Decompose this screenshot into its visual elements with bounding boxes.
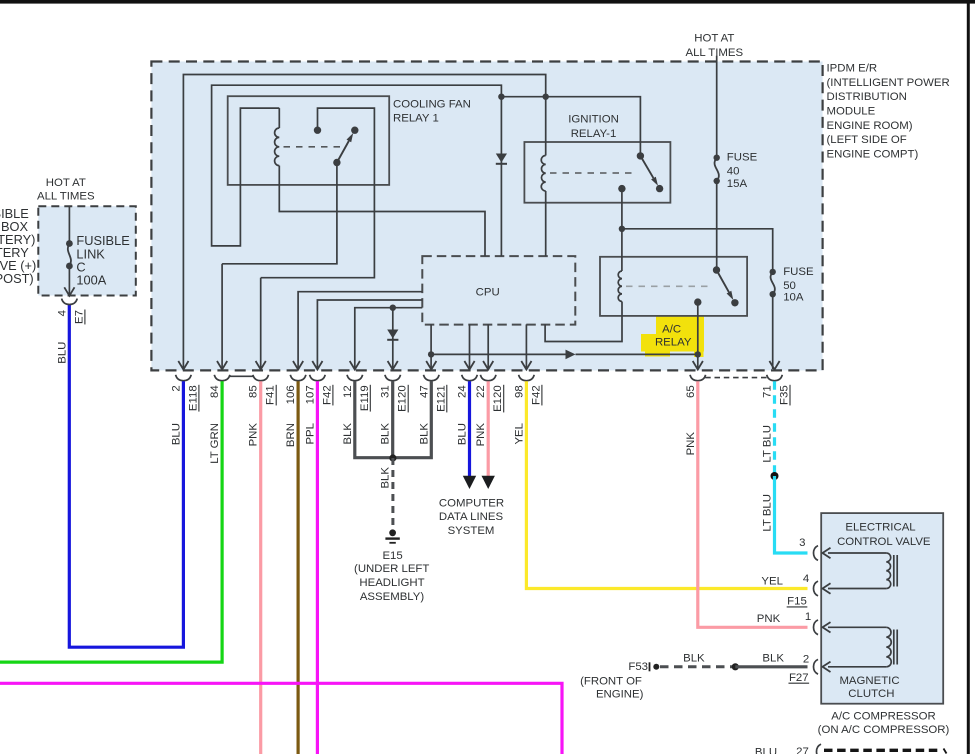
ignition switch arm xyxy=(640,156,653,178)
svg-text:(UNDER LEFT: (UNDER LEFT xyxy=(354,563,429,575)
fusible link box fill xyxy=(38,206,136,295)
svg-text:1: 1 xyxy=(805,611,811,623)
wire CPU pin47 junction to A/C pin65 node xyxy=(431,353,565,355)
svg-text:F35: F35 xyxy=(779,385,791,405)
dashed BLK wire from F53 xyxy=(660,665,733,668)
svg-text:E121: E121 xyxy=(435,385,447,412)
svg-text:12: 12 xyxy=(342,385,354,398)
A/C coil-switch dashed link xyxy=(626,285,711,287)
svg-text:RELAY: RELAY xyxy=(655,336,692,348)
svg-text:2: 2 xyxy=(803,654,809,666)
svg-text:F41: F41 xyxy=(265,385,277,405)
wire A/C contact to pin 65 xyxy=(697,302,699,369)
wire MAG crossing bottom xyxy=(0,683,562,754)
control valve core bars xyxy=(893,555,895,587)
junction dot pin47 xyxy=(428,351,434,357)
ignition coil bottom lead to CPU xyxy=(545,191,547,256)
svg-text:FUSE: FUSE xyxy=(783,266,814,278)
svg-text:F42: F42 xyxy=(321,385,333,405)
dashed connector tie pins 65-71 xyxy=(705,377,767,379)
svg-text:RELAY 1: RELAY 1 xyxy=(393,113,439,125)
cooling fan contact n-wire to pin 85 xyxy=(261,108,375,278)
svg-text:COMPUTER: COMPUTER xyxy=(439,498,504,510)
magnetic clutch coil xyxy=(886,627,891,667)
svg-text:DISTRIBUTION: DISTRIBUTION xyxy=(827,91,907,103)
svg-text:(FRONT OF: (FRONT OF xyxy=(580,675,642,687)
wire bus y97 to ignition switch contact xyxy=(501,97,640,156)
arrow computer data lines left xyxy=(463,476,476,489)
svg-text:E15: E15 xyxy=(382,550,402,562)
page right border bar xyxy=(967,0,970,754)
wire CPU to pin98 xyxy=(525,324,527,369)
svg-text:F53: F53 xyxy=(628,661,648,673)
svg-text:LT GRN: LT GRN xyxy=(209,423,221,464)
svg-text:FUSE: FUSE xyxy=(727,152,758,164)
svg-text:F27: F27 xyxy=(789,672,809,684)
svg-text:ENGINE COMPT): ENGINE COMPT) xyxy=(827,149,919,161)
svg-text:YEL: YEL xyxy=(761,576,783,588)
wire BLU fusible-link to pin 2 xyxy=(69,305,183,648)
svg-text:47: 47 xyxy=(418,385,430,398)
svg-text:BLU: BLU xyxy=(56,342,68,364)
fusible link bottom lead xyxy=(68,266,70,295)
svg-text:LT BLU: LT BLU xyxy=(762,494,774,532)
svg-text:4: 4 xyxy=(56,310,68,316)
wire pin84 vertical xyxy=(221,264,223,369)
svg-text:27: 27 xyxy=(796,746,809,754)
magnetic clutch core bars xyxy=(893,630,895,665)
ignition relay-1 box xyxy=(524,142,670,203)
svg-text:RELAY-1: RELAY-1 xyxy=(571,128,617,140)
svg-text:BRN: BRN xyxy=(285,423,297,447)
dashed LT BLU pin 71 xyxy=(773,381,776,476)
svg-text:BLK: BLK xyxy=(380,467,392,489)
ground E15 xyxy=(389,529,396,536)
svg-text:10A: 10A xyxy=(783,292,804,304)
A/C switch contact dots xyxy=(713,266,720,273)
cooling fan coil top lead xyxy=(278,108,280,128)
svg-text:ENGINE): ENGINE) xyxy=(596,689,644,701)
svg-text:A/C COMPRESSOR: A/C COMPRESSOR xyxy=(831,711,935,723)
svg-text:BLU: BLU xyxy=(170,423,182,445)
svg-text:BLU: BLU xyxy=(755,747,777,754)
cooling fan coil-switch dashed link xyxy=(284,146,342,148)
svg-text:(ON A/C COMPRESSOR): (ON A/C COMPRESSOR) xyxy=(818,724,950,736)
diode D1 (pin31 branch) xyxy=(387,330,398,339)
wire BLU pin 24 xyxy=(468,381,471,477)
cooling fan switch contact dots xyxy=(314,127,321,134)
cooling fan arm lead to pin 84 xyxy=(222,163,337,264)
IPDM E/R dashed border xyxy=(151,62,822,371)
svg-text:100A: 100A xyxy=(76,272,106,287)
wire CPU to pin22 xyxy=(487,324,489,369)
svg-text:PNK: PNK xyxy=(685,432,697,456)
svg-text:MODULE: MODULE xyxy=(827,105,876,117)
svg-text:(LEFT SIDE OF: (LEFT SIDE OF xyxy=(827,134,907,146)
svg-text:E120: E120 xyxy=(492,385,504,412)
LT BLU splice dot xyxy=(771,472,779,480)
wire PNK pin 65 to clutch pin 1 xyxy=(698,381,808,627)
svg-text:POST): POST) xyxy=(0,271,34,286)
wire CPU to pin24 xyxy=(469,324,471,369)
wire fuse50 to pin 71 xyxy=(772,294,774,369)
ignition coil-switch dashed link xyxy=(550,172,637,174)
svg-text:F42: F42 xyxy=(530,385,542,405)
fusible link top lead xyxy=(68,206,70,243)
svg-text:E119: E119 xyxy=(359,385,371,411)
wire coil-top loop + second bus + diode branch down to CPU xyxy=(212,85,502,256)
diode D2 (ignition branch) xyxy=(496,154,507,163)
bracket tie pins 84-85 xyxy=(230,375,254,377)
valve pin 3 bracket xyxy=(814,546,819,561)
svg-text:IGNITION: IGNITION xyxy=(568,114,619,126)
wire pin106 to CPU xyxy=(298,292,422,369)
direction arrow on wire xyxy=(566,350,576,360)
svg-text:CONTROL VALVE: CONTROL VALVE xyxy=(837,536,931,548)
svg-text:106: 106 xyxy=(285,385,297,404)
wire BLK pin 47 xyxy=(393,381,431,457)
valve pin 3 arrow xyxy=(823,548,831,558)
pin brackets xyxy=(176,375,192,381)
svg-text:A/C: A/C xyxy=(662,323,681,335)
wire CPU to pin47 xyxy=(430,324,432,369)
wire YEL pin 98 to valve pin 4 xyxy=(526,381,807,588)
svg-text:LT BLU: LT BLU xyxy=(762,425,774,463)
wire LT BLU to valve pin 3 xyxy=(775,476,808,553)
fusible link element xyxy=(66,240,73,247)
svg-text:PNK: PNK xyxy=(757,613,781,625)
svg-text:107: 107 xyxy=(304,385,316,404)
svg-text:CPU: CPU xyxy=(476,287,500,299)
svg-text:COOLING FAN: COOLING FAN xyxy=(393,98,471,110)
wire LT GRN pin 84 xyxy=(0,381,222,662)
svg-text:BLK: BLK xyxy=(418,423,430,445)
svg-text:SYSTEM: SYSTEM xyxy=(448,525,495,537)
svg-text:50: 50 xyxy=(783,280,796,292)
cooling fan relay coil xyxy=(275,128,280,166)
A/C relay coil xyxy=(618,271,622,302)
control valve coil xyxy=(886,553,890,589)
wire BLK to clutch pin 2 xyxy=(735,665,807,668)
svg-text:84: 84 xyxy=(209,385,221,398)
svg-text:HEADLIGHT: HEADLIGHT xyxy=(359,577,424,589)
svg-text:40: 40 xyxy=(727,166,740,178)
wire BRN pin 106 xyxy=(297,381,300,754)
partial tick right xyxy=(944,749,947,754)
svg-text:PPL: PPL xyxy=(304,423,316,445)
fuse 40 xyxy=(714,155,720,161)
splice F53 symbol xyxy=(649,662,651,671)
wire BLK pin 12 xyxy=(355,381,393,457)
svg-text:BLK: BLK xyxy=(683,652,705,664)
svg-text:HOT AT: HOT AT xyxy=(694,33,734,45)
valve pin 1 arrow xyxy=(823,622,831,632)
cooling fan relay 1 box xyxy=(228,96,390,185)
svg-text:ALL TIMES: ALL TIMES xyxy=(685,47,743,59)
svg-text:2: 2 xyxy=(170,385,182,391)
svg-text:F15: F15 xyxy=(787,596,807,608)
svg-text:BLU: BLU xyxy=(457,423,469,445)
page top border bar xyxy=(0,0,975,4)
junction dot diode branch xyxy=(390,305,396,311)
A/C relay box xyxy=(600,257,747,316)
control valve coil loop xyxy=(828,552,886,554)
junction dot fuse50 branch xyxy=(619,226,625,232)
wire hot-at-all-times to fuse 40 xyxy=(716,56,718,158)
svg-text:PNK: PNK xyxy=(475,423,487,447)
cooling fan coil bottom lead to CPU xyxy=(279,166,485,257)
fusible link exit arrow xyxy=(64,287,74,296)
partial dashed box bottom right xyxy=(824,749,941,752)
valve pin 1 bracket xyxy=(814,620,819,635)
svg-text:BLK: BLK xyxy=(380,423,392,445)
magnetic clutch coil loop xyxy=(828,626,886,628)
wire PPL pin 107 xyxy=(316,381,319,754)
svg-text:DATA LINES: DATA LINES xyxy=(439,511,504,523)
svg-text:ASSEMBLY): ASSEMBLY) xyxy=(360,591,425,603)
A/C compressor box fill xyxy=(821,513,943,704)
A/C switch arm xyxy=(717,270,729,292)
BLK junction dot xyxy=(389,454,396,461)
wire pin107 to CPU xyxy=(317,300,422,369)
svg-text:PNK: PNK xyxy=(248,423,260,447)
wire to fuse 50 xyxy=(622,229,773,272)
BLK splice dot xyxy=(732,663,739,670)
CPU box (dashed) xyxy=(422,256,575,325)
svg-text:BLK: BLK xyxy=(762,652,784,664)
IPDM E/R box fill xyxy=(151,62,822,371)
A/C coil return to CPU xyxy=(545,302,622,342)
svg-text:3: 3 xyxy=(799,537,805,549)
valve pin 2 bracket xyxy=(814,659,819,674)
svg-text:85: 85 xyxy=(248,385,260,398)
fuse 50 xyxy=(770,269,776,275)
svg-text:E7: E7 xyxy=(73,310,85,324)
junction dot pin65 wire xyxy=(695,351,701,357)
svg-text:71: 71 xyxy=(762,385,774,398)
wire fuse40 to A/C switch contact xyxy=(716,181,718,270)
junction dots on bus y97 xyxy=(498,94,504,100)
wire pin2 + top bus to ignition coil xyxy=(183,75,545,370)
wire ignition contact down to A/C relay coil xyxy=(621,189,623,271)
wire diode branch to pin31 xyxy=(392,308,394,369)
svg-text:E120: E120 xyxy=(397,385,409,412)
wire PNK pin 22 xyxy=(487,381,490,477)
ignition relay coil xyxy=(541,156,545,192)
partial bracket pin 27 xyxy=(817,744,822,754)
fusible link bracket xyxy=(62,299,78,305)
ignition switch contact dots xyxy=(637,152,644,159)
svg-text:ELECTRICAL: ELECTRICAL xyxy=(845,522,915,534)
wire PNK pin 85 xyxy=(259,381,262,754)
svg-text:ENGINE ROOM): ENGINE ROOM) xyxy=(827,120,913,132)
svg-text:4: 4 xyxy=(803,573,809,585)
valve pin 2 arrow xyxy=(823,662,831,672)
svg-text:BLK: BLK xyxy=(342,423,354,445)
dashed BLK wire to ground xyxy=(391,458,394,528)
wire BLK pin 31 xyxy=(391,381,394,457)
svg-text:15A: 15A xyxy=(727,178,748,190)
svg-text:98: 98 xyxy=(513,385,525,398)
valve pin 4 arrow xyxy=(823,583,831,593)
arrow computer data lines right xyxy=(482,476,495,489)
wire pin85 vertical xyxy=(260,278,262,369)
svg-text:65: 65 xyxy=(685,385,697,398)
wire pin12 to CPU xyxy=(355,308,423,369)
cooling fan switch arm xyxy=(337,141,349,163)
IPDM pin exit arrows xyxy=(178,361,188,370)
svg-text:31: 31 xyxy=(380,385,392,398)
svg-text:IPDM E/R: IPDM E/R xyxy=(827,62,878,74)
svg-text:YEL: YEL xyxy=(513,423,525,445)
svg-text:HOT AT: HOT AT xyxy=(46,177,86,189)
valve pin 4 bracket xyxy=(814,581,819,596)
fusible link box dashed border xyxy=(38,206,136,295)
svg-text:22: 22 xyxy=(475,385,487,398)
svg-text:CLUTCH: CLUTCH xyxy=(848,688,894,700)
svg-text:E118: E118 xyxy=(187,385,199,411)
svg-text:MAGNETIC: MAGNETIC xyxy=(839,675,899,687)
yellow highlight over A/C RELAY label xyxy=(641,316,704,357)
svg-text:(INTELLIGENT POWER: (INTELLIGENT POWER xyxy=(827,77,950,89)
electrical control valve / magnetic clutch box xyxy=(821,513,943,704)
svg-text:ALL TIMES: ALL TIMES xyxy=(37,190,95,202)
svg-text:24: 24 xyxy=(457,385,469,398)
